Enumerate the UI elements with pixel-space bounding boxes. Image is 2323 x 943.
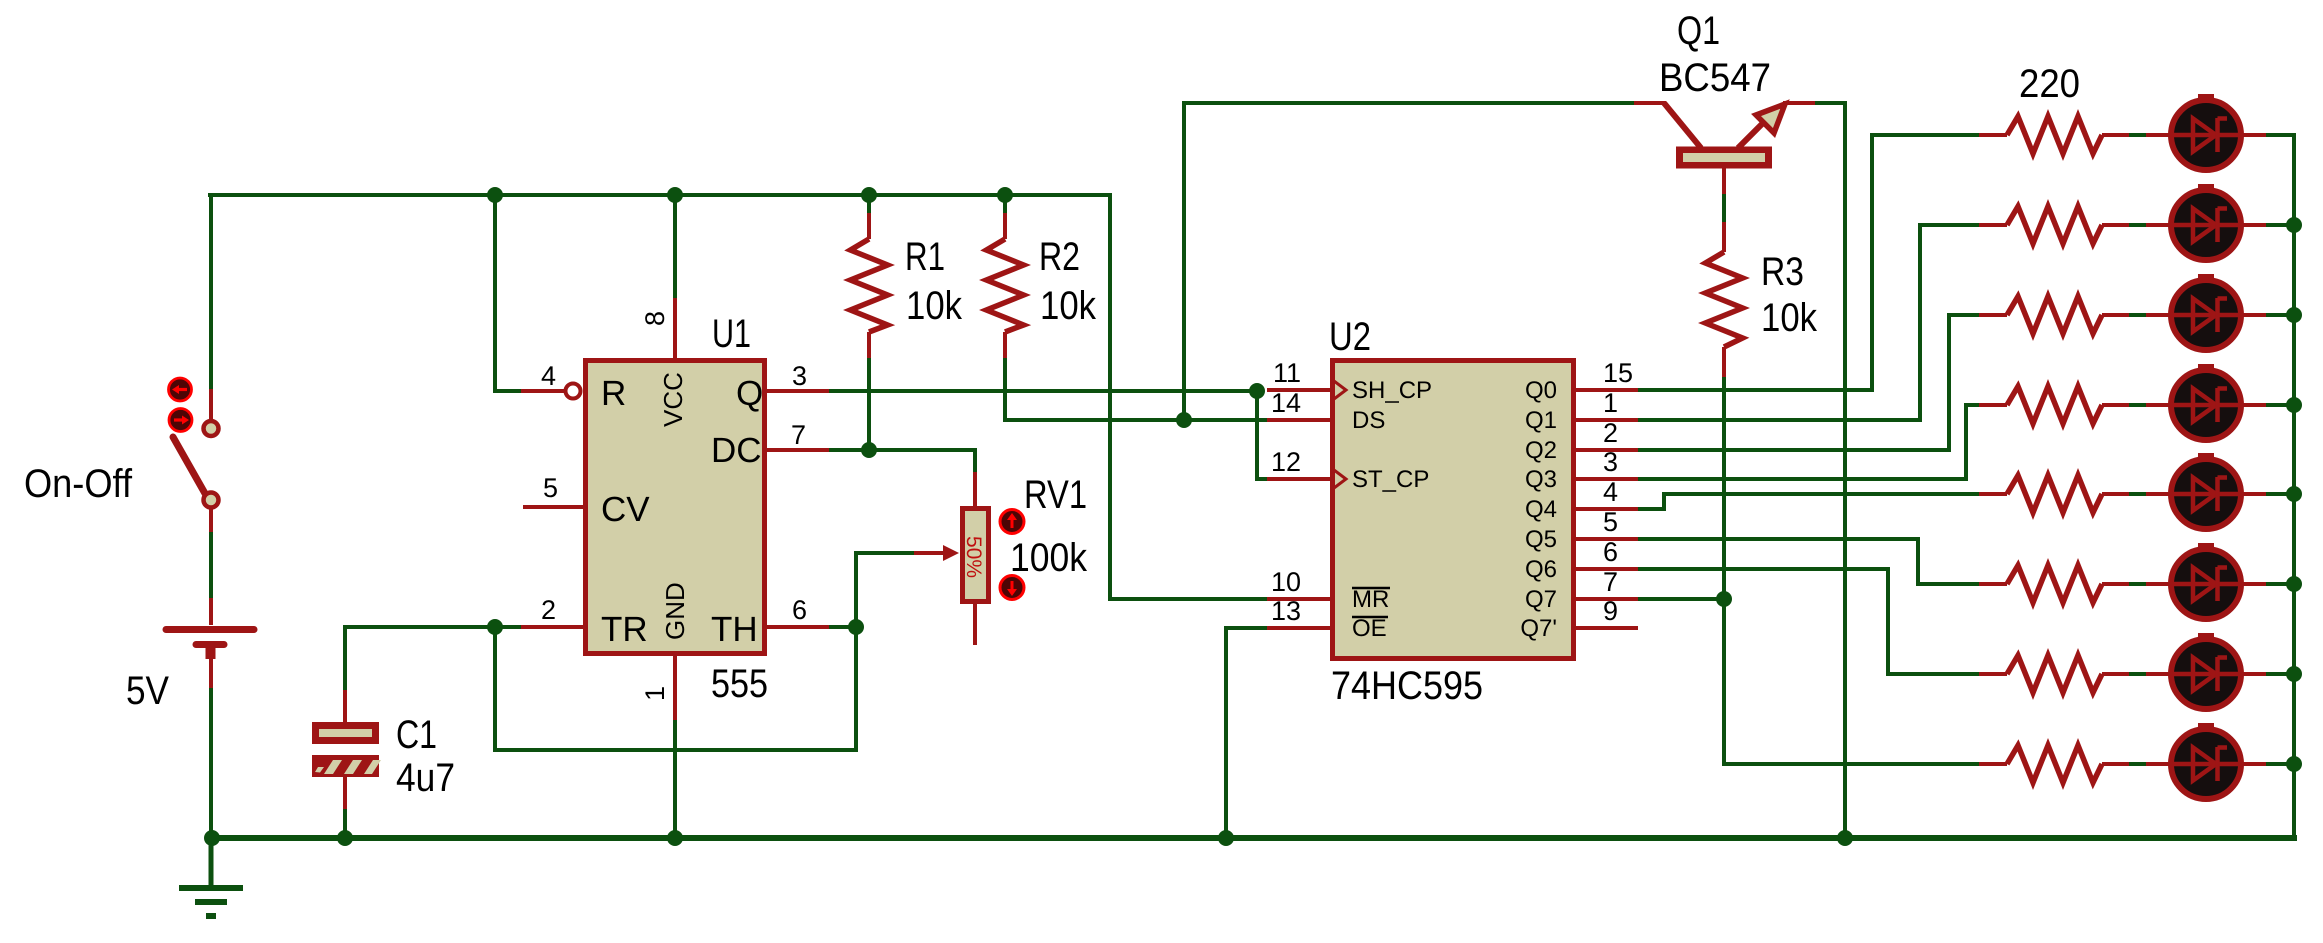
wire RV1 bottom stub: [973, 602, 977, 645]
svg-text:11: 11: [1273, 358, 1301, 388]
svg-text:CV: CV: [601, 490, 650, 529]
wire Q0 pin15 to LED row1: [1638, 135, 1979, 390]
wire TH stub pin6: [767, 625, 829, 629]
junction rail/R1: [861, 187, 877, 203]
wire pin1 stub: [673, 656, 677, 720]
resistor R3 10k: [1705, 252, 1742, 347]
capacitor C1 4u7: [312, 722, 379, 744]
wire battery bottom stub: [209, 656, 213, 688]
svg-text:8: 8: [640, 311, 670, 326]
junction TR/C1: [487, 619, 503, 635]
svg-text:220: 220: [2019, 62, 2080, 106]
svg-text:U2: U2: [1329, 315, 1371, 359]
wire pin1 GND to rail: [673, 720, 677, 838]
wire TR node: [345, 625, 521, 629]
inversion bubble pin 4: [566, 384, 581, 399]
junction LED bus: [2286, 756, 2302, 772]
svg-text:13: 13: [1271, 596, 1301, 626]
wire R1 bottom to DC node: [867, 358, 871, 450]
wire battery top stub: [209, 598, 213, 625]
wire TH-TR loop: [495, 553, 856, 750]
wire Q1 collector to DS node: [1184, 103, 1634, 420]
RV1 actuator buttons: [1000, 510, 1024, 534]
resistor 220 row4: [2007, 386, 2102, 423]
battery BAT1 5V: [166, 626, 254, 633]
svg-text:DC: DC: [711, 431, 762, 470]
wire row1 resistor/LED leads: [1979, 133, 2007, 137]
svg-text:TH: TH: [711, 610, 758, 649]
wire base to R3: [1722, 194, 1726, 222]
svg-text:100k: 100k: [1010, 536, 1088, 580]
wire row3 resistor/LED leads: [1979, 313, 2007, 317]
wire rail to reset pin4: [495, 195, 521, 391]
svg-text:10k: 10k: [1040, 284, 1097, 328]
wire Q4 pin4 to LED row5: [1638, 494, 1979, 509]
svg-text:VCC: VCC: [658, 372, 688, 427]
svg-text:R2: R2: [1039, 235, 1080, 279]
wire LED cathode bus: [2292, 135, 2296, 838]
svg-text:2: 2: [541, 595, 556, 625]
wire row8 resistor/LED leads: [1979, 762, 2007, 766]
wire LED row1 links: [2129, 133, 2146, 137]
wire LED row5 links: [2129, 492, 2146, 496]
junction rail/pin1: [667, 830, 683, 846]
wire R2 bottom to DS pin14: [1005, 358, 1267, 420]
RV1 wiper arrow: [914, 551, 944, 555]
wire Q1 emitter stub: [1783, 101, 1815, 105]
wire C1 top lead: [343, 627, 347, 690]
svg-text:R1: R1: [905, 235, 945, 279]
svg-text:50%: 50%: [962, 536, 985, 578]
svg-text:DS: DS: [1352, 407, 1385, 434]
wire Q1 base stub: [1722, 168, 1726, 194]
resistor R1 10k: [850, 239, 887, 332]
ground: [179, 838, 243, 916]
wire R3 bottom to Q7 node: [1722, 377, 1726, 599]
junction LED bus: [2286, 486, 2302, 502]
svg-text:C1: C1: [396, 713, 437, 757]
wire row7 resistor/LED leads: [1979, 672, 2007, 676]
svg-text:1: 1: [1603, 388, 1618, 418]
svg-text:RV1: RV1: [1024, 473, 1087, 517]
junction rail/C1: [337, 830, 353, 846]
svg-text:3: 3: [792, 361, 807, 391]
svg-text:6: 6: [1603, 537, 1618, 567]
wire R3 leads: [1722, 222, 1726, 252]
svg-text:14: 14: [1271, 388, 1301, 418]
wire ground rail: [210, 835, 2294, 841]
LED D6: [2171, 543, 2241, 619]
wire Q1 emitter bus to rail: [1815, 103, 1845, 838]
junction TH/wiper: [848, 619, 864, 635]
resistor 220 row3: [2007, 296, 2102, 333]
wire Q stub pin3: [767, 389, 829, 393]
wire rail to pin8 VCC: [673, 195, 677, 298]
svg-text:Q: Q: [736, 374, 763, 413]
wire rail to switch: [209, 195, 213, 389]
wire TR stub pin2: [521, 625, 583, 629]
switch SW1 On-Off: [173, 437, 207, 497]
LED D7: [2171, 633, 2241, 709]
svg-text:15: 15: [1603, 358, 1633, 388]
op-amp U1 555 timer: [586, 361, 765, 654]
svg-text:4: 4: [541, 361, 556, 391]
svg-text:4: 4: [1603, 477, 1618, 507]
svg-text:9: 9: [1603, 596, 1618, 626]
svg-text:7: 7: [791, 420, 806, 450]
junction R3/Q7: [1716, 591, 1732, 607]
chip U2 74HC595: [1333, 361, 1574, 659]
svg-text:Q1: Q1: [1677, 9, 1720, 53]
svg-text:R3: R3: [1761, 250, 1804, 294]
wire C1 top stub: [343, 690, 347, 723]
junction Q/SH_CP/ST_CP: [1249, 383, 1265, 399]
junction rail/battery: [204, 830, 220, 846]
transistor Q1 BC547: [1664, 103, 1701, 148]
wire switch bottom stub: [209, 507, 213, 532]
wire reset stub pin4: [521, 389, 565, 393]
wire Q6 pin6 to LED row7: [1638, 569, 1979, 674]
wire switch top stub: [209, 389, 213, 420]
svg-text:BC547: BC547: [1659, 56, 1771, 100]
wire LED row7 links: [2129, 672, 2146, 676]
wire OE pin13 to rail: [1226, 628, 1267, 838]
resistor R2 10k: [986, 239, 1023, 332]
resistor 220 row7: [2007, 655, 2102, 692]
svg-text:On-Off: On-Off: [24, 462, 133, 506]
svg-text:5: 5: [543, 473, 558, 503]
wire row6 resistor/LED leads: [1979, 582, 2007, 586]
wire LED row8 links: [2129, 762, 2146, 766]
svg-text:74HC595: 74HC595: [1331, 664, 1483, 708]
potentiometer RV1 100k: [963, 509, 989, 602]
svg-text:4u7: 4u7: [396, 756, 455, 800]
svg-text:10k: 10k: [1761, 296, 1818, 340]
wire R2 leads: [1003, 213, 1007, 239]
svg-text:TR: TR: [601, 610, 648, 649]
wire row2 resistor/LED leads: [1979, 223, 2007, 227]
wire Q pin3 to SH_CP: [829, 389, 1257, 393]
wire DC stub pin7: [767, 448, 829, 452]
LED D8: [2171, 723, 2241, 799]
svg-text:5V: 5V: [126, 669, 169, 713]
LED D3: [2171, 274, 2241, 350]
junction rail/emitter bus: [1837, 830, 1853, 846]
svg-text:OE: OE: [1352, 615, 1387, 642]
svg-text:Q1: Q1: [1525, 407, 1557, 434]
wire R2 top: [1003, 195, 1007, 213]
wire DC pin7 to RV1: [829, 450, 975, 472]
junction LED bus: [2286, 666, 2302, 682]
wire RV1 top stub: [973, 472, 977, 508]
LED D4: [2171, 364, 2241, 440]
svg-text:10: 10: [1271, 567, 1301, 597]
svg-text:Q5: Q5: [1525, 526, 1557, 553]
wire C1 bottom to rail: [343, 809, 347, 838]
junction LED bus: [2286, 397, 2302, 413]
junction R1/DC: [861, 442, 877, 458]
wire node to ST_CP pin12: [1257, 391, 1267, 479]
wire Q3 pin3 to LED row4: [1638, 405, 1979, 479]
resistor 220 row5: [2007, 475, 2102, 512]
junction LED bus: [2286, 307, 2302, 323]
junction LED bus: [2286, 217, 2302, 233]
wire LED row3 links: [2129, 313, 2146, 317]
resistor 220 row6: [2007, 565, 2102, 602]
LED D2: [2171, 184, 2241, 260]
wire row5 resistor/LED leads: [1979, 492, 2007, 496]
wire Q1 pin1 to LED row2: [1638, 225, 1979, 420]
wire battery to ground rail: [209, 688, 213, 838]
svg-text:MR: MR: [1352, 586, 1389, 613]
junction rail/R2: [997, 187, 1013, 203]
svg-text:Q7: Q7: [1525, 586, 1557, 613]
wire pin8 stub: [673, 298, 677, 358]
svg-text:Q6: Q6: [1525, 556, 1557, 583]
svg-text:U1: U1: [712, 312, 751, 356]
resistor 220 row8: [2007, 745, 2102, 782]
wire CV stub pin5: [523, 505, 583, 509]
svg-text:Q7': Q7': [1520, 615, 1557, 642]
wire wiper feed: [856, 551, 914, 555]
junction LED bus: [2286, 576, 2302, 592]
junction rail/pin8: [667, 187, 683, 203]
wire row4 resistor/LED leads: [1979, 403, 2007, 407]
svg-text:Q3: Q3: [1525, 466, 1557, 493]
svg-text:GND: GND: [660, 582, 690, 640]
svg-text:2: 2: [1603, 418, 1618, 448]
wire Q2 pin2 to LED row3: [1638, 315, 1979, 450]
clock arrow ST_CP: [1334, 470, 1346, 488]
U2 right pin stubs 15 1 2 3 4 5 6 7 9: [1574, 388, 1638, 392]
svg-text:Q2: Q2: [1525, 437, 1557, 464]
wire Q1 collector stub: [1634, 101, 1666, 105]
svg-text:5: 5: [1603, 507, 1618, 537]
svg-text:3: 3: [1603, 447, 1618, 477]
svg-text:1: 1: [640, 686, 670, 701]
wire Q7 pin7: [1638, 597, 1724, 601]
wire Q5 pin5 to LED row6: [1638, 539, 1979, 584]
wire Q7 node to LED row8: [1724, 599, 1979, 764]
junction collector/DS: [1176, 412, 1192, 428]
svg-text:10k: 10k: [906, 284, 963, 328]
LED D5: [2171, 453, 2241, 529]
wire VCC rail to MR pin10: [210, 195, 1267, 599]
svg-text:R: R: [601, 374, 626, 413]
resistor 220 row1: [2007, 116, 2102, 153]
wire C1 bottom stub: [343, 776, 347, 809]
wire R1 top: [867, 195, 871, 213]
LED D1: [2171, 94, 2241, 170]
wire LED row2 links: [2129, 223, 2146, 227]
svg-text:555: 555: [711, 662, 768, 706]
wire LED row4 links: [2129, 403, 2146, 407]
svg-text:SH_CP: SH_CP: [1352, 377, 1432, 404]
clock arrow SH_CP: [1334, 381, 1346, 399]
svg-text:Q4: Q4: [1525, 496, 1557, 523]
resistor 220 row2: [2007, 206, 2102, 243]
svg-text:Q0: Q0: [1525, 377, 1557, 404]
U2 left pin stubs 11 14 12 10 13: [1267, 388, 1332, 392]
svg-text:12: 12: [1271, 447, 1301, 477]
wire TH stub to node: [829, 625, 856, 629]
svg-text:7: 7: [1603, 567, 1618, 597]
wire switch to battery: [209, 532, 213, 598]
svg-text:6: 6: [792, 595, 807, 625]
svg-text:ST_CP: ST_CP: [1352, 466, 1429, 493]
junction rail/reset: [487, 187, 503, 203]
junction rail/OE: [1218, 830, 1234, 846]
wire R1 leads: [867, 213, 871, 239]
wire LED row6 links: [2129, 582, 2146, 586]
switch On-Off actuator buttons: [169, 378, 192, 401]
